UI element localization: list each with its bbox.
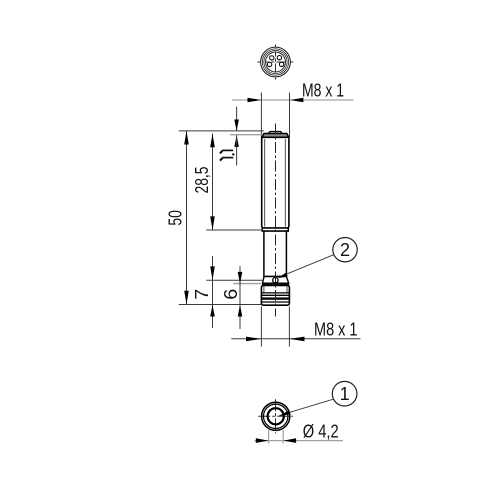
extension line gray (1,1 lower) [230, 134, 262, 136]
collar inner line left [263, 286, 265, 293]
connector dome [268, 132, 282, 134]
diameter 4,2 extension line left [268, 430, 270, 444]
bottom M8x1 arrow left [246, 337, 261, 342]
balloon 1 leader line [289, 399, 333, 412]
extension line 7 top [206, 279, 263, 281]
bottom M8x1 arrow right [289, 337, 304, 342]
diameter 4,2 dimension line [254, 440, 343, 442]
LED ring section [263, 277, 289, 284]
svg-text:Ø 4,2: Ø 4,2 [303, 422, 339, 442]
threaded barrel [262, 137, 289, 228]
balloon 2 leader line [286, 255, 334, 275]
dimension 1,1 upper line [236, 107, 238, 131]
connector face view centerline horizontal [257, 61, 294, 63]
dimension 1,1 lower line [236, 135, 238, 165]
collar inner line right [286, 286, 288, 293]
dimension 7 arrow top [210, 266, 215, 280]
dimension 6 line [239, 266, 241, 329]
top M8x1 arrow right [290, 98, 304, 103]
pin 1 upper-left [270, 56, 274, 60]
svg-text:28,5: 28,5 [192, 167, 212, 194]
svg-text:1: 1 [340, 384, 350, 404]
bottom view middle circle [264, 404, 288, 428]
dimension 50 line [186, 131, 188, 304]
extension line 6 top gray [233, 283, 261, 285]
balloon 2 leader arrow [278, 273, 288, 279]
cap band [262, 134, 289, 138]
connector thread rings [262, 48, 290, 76]
pin 4 lower-right [279, 62, 283, 66]
connector face view centerline vertical [275, 45, 277, 80]
pin 2 upper-right [277, 56, 281, 60]
pin 3 lower-left [267, 62, 271, 66]
dark seal band [262, 283, 288, 285]
svg-text:7: 7 [192, 289, 212, 300]
bottom M8x1 dimension line [231, 338, 360, 340]
balloon 1 leader arrow [278, 411, 290, 417]
bottom view outer circle [262, 402, 290, 430]
dimension 7 line [212, 256, 214, 328]
dimension 1,1 label [220, 150, 234, 160]
diameter 4,2 arrow right [283, 438, 296, 443]
dimension 28,5 arrow bottom [210, 216, 215, 230]
dimension 28,5 arrow top [210, 134, 215, 148]
top M8x1 extension line left [260, 93, 262, 138]
extension line top (for 50 and 1,1) [179, 130, 264, 132]
collar groove line 2 [261, 294, 289, 296]
svg-text:M8 x 1: M8 x 1 [302, 80, 344, 100]
balloon 2 circle [333, 238, 357, 262]
extension line bottom (50/7/6) [179, 304, 261, 306]
top M8x1 arrow left [248, 98, 262, 103]
thread line left [264, 139, 266, 227]
LED circle [273, 278, 278, 283]
dimension 6 arrow top [238, 272, 243, 284]
sensing nose collar [261, 286, 289, 306]
nose dark ring [262, 298, 289, 300]
dimension 6 arrow bottom [238, 305, 243, 317]
balloon 1 circle [332, 381, 357, 406]
body centerline [275, 124, 277, 317]
mid cylinder [264, 231, 287, 276]
dimension 1,1 lower arrow [234, 135, 239, 147]
top M8x1 dimension line [232, 99, 354, 101]
svg-text:6: 6 [221, 289, 241, 300]
dimension 7 arrow bottom [210, 305, 215, 317]
bottom M8x1 extension line left [260, 307, 262, 347]
top M8x1 extension line right [289, 93, 291, 138]
diameter 4,2 extension line right [282, 430, 284, 444]
dimension 28,5 line [212, 134, 214, 230]
nose groove line 3 [261, 301, 289, 303]
collar groove line 1 [261, 292, 289, 294]
dimension 1,1 upper arrow [234, 120, 239, 132]
dimension 50 arrow top [184, 131, 189, 145]
bottom view centerline vertical [275, 399, 277, 433]
svg-text:M8 x 1: M8 x 1 [314, 319, 358, 339]
svg-text:2: 2 [340, 240, 350, 260]
bottom M8x1 extension line right [288, 307, 290, 347]
extension line 28,5 bottom [206, 229, 262, 231]
bottom view sensing circle [268, 408, 284, 424]
svg-text:50: 50 [166, 210, 186, 226]
diameter 4,2 arrow left [256, 438, 269, 443]
bottom view centerline horizontal [258, 415, 293, 417]
thread line right [284, 139, 286, 227]
washer band [262, 228, 288, 231]
dimension 50 arrow bottom [184, 291, 189, 305]
